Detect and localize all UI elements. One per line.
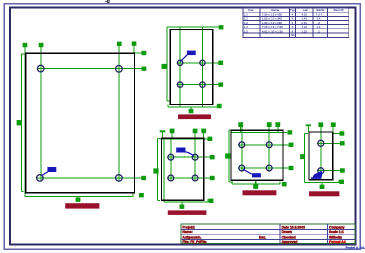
title block frame xyxy=(181,224,355,243)
hole row line bottom V3 xyxy=(167,177,210,179)
hole V3 top-right xyxy=(192,154,198,160)
top edge stub to handle V1 xyxy=(134,52,141,54)
svg-text:Format A4: Format A4 xyxy=(329,240,346,244)
handle top dim V2 xyxy=(219,25,224,29)
svg-text:.50.: .50. xyxy=(290,33,295,37)
handle top dim right V4 xyxy=(287,130,292,134)
label bar V5 xyxy=(309,191,339,196)
hole V2 top-right xyxy=(200,60,205,65)
title block column divider 1 xyxy=(279,224,281,243)
title block row line 1 xyxy=(181,229,355,231)
bottom dimension line V5 xyxy=(305,180,339,183)
hole column line right V3 xyxy=(194,139,196,181)
hole V1 bottom-right xyxy=(116,175,123,182)
hole row line top V3 xyxy=(167,156,210,158)
svg-text:Projekt:: Projekt: xyxy=(182,225,195,229)
svg-text:Approved: Approved xyxy=(282,240,298,244)
handle bottom centre V1 xyxy=(76,198,81,202)
handle top right V5 xyxy=(331,122,336,127)
handle top b V3 xyxy=(170,129,175,134)
handle top D V1 xyxy=(132,41,137,45)
table column Stk xyxy=(327,8,329,37)
hole V3 top-left xyxy=(168,154,174,160)
label bar V3 xyxy=(168,210,207,215)
handle bottom centre V3 xyxy=(180,205,185,209)
svg-text:Scale 1:1: Scale 1:1 xyxy=(329,230,344,234)
witness line right edge V1 xyxy=(133,45,135,53)
dim handle left V5 xyxy=(300,154,305,159)
title block column divider 2 xyxy=(326,224,328,243)
handle hole-row-bottom V5 xyxy=(340,168,345,172)
handle hole-row-top V4 xyxy=(289,143,294,147)
dim handle left V2 xyxy=(162,64,167,69)
witness stub c V4 xyxy=(277,127,279,132)
table row line 4 xyxy=(243,24,349,26)
table text xyxy=(244,8,344,37)
handle bottom dim right V2 xyxy=(217,104,222,108)
table column Lab xyxy=(312,8,314,37)
top dimension line V3 xyxy=(161,138,208,140)
svg-text:7.10: 7.10 xyxy=(302,25,308,29)
table row line 6 xyxy=(243,32,349,34)
handle bottom centre V4 xyxy=(253,184,258,189)
svg-text:1.10: 1.10 xyxy=(302,29,308,33)
handle hole-row-top V3 xyxy=(210,155,215,159)
hole V2 top-left xyxy=(177,60,182,65)
svg-text:1.41: 1.41 xyxy=(302,17,308,21)
svg-text:4.10: 4.10 xyxy=(302,13,308,17)
handle top-right dim V5 xyxy=(340,131,345,135)
stub bottom centre handle V2 xyxy=(190,107,192,110)
hole V1 top-right xyxy=(116,66,123,73)
svg-text:Wilhelm: Wilhelm xyxy=(329,236,342,240)
stub bottom centre handle V1 xyxy=(77,197,79,200)
table row line 1 xyxy=(243,11,349,13)
svg-text:Pos: Pos xyxy=(248,8,254,12)
table row line 3 xyxy=(243,20,349,22)
handle hole-row-bottom V4 xyxy=(289,166,294,170)
handle right hole-row-bottom V1 xyxy=(141,176,146,180)
dim handle left V1 xyxy=(17,120,22,125)
title block texts xyxy=(182,225,345,244)
svg-text:Name:: Name: xyxy=(182,230,192,234)
bottom dimension line V3 xyxy=(164,199,208,202)
hole V4 top-right xyxy=(266,142,272,148)
svg-text:Lab: Lab xyxy=(303,8,308,12)
hole V5 bottom xyxy=(318,168,324,174)
witness stub c V3 xyxy=(194,133,196,139)
hole column line V5 xyxy=(320,127,322,174)
table row line 2 xyxy=(243,16,349,18)
bar handle top V5 xyxy=(306,124,311,126)
stub bottom centre handle V5 xyxy=(321,182,323,185)
left dimension line V4 xyxy=(229,130,233,182)
hole row line bottom V4 xyxy=(238,167,288,169)
bottom dimension line V2 xyxy=(168,105,217,108)
dim witness line along left edge V1 xyxy=(24,47,26,197)
component mark V5 xyxy=(311,171,322,179)
handle top dim right V3 xyxy=(208,137,213,141)
witness stub mid V5 xyxy=(320,127,322,134)
hole row line top V2 xyxy=(177,62,219,64)
svg-text:1.3: 1.3 xyxy=(244,21,248,25)
clipped origin text 0 xyxy=(105,0,109,3)
hole column line right V4 xyxy=(268,127,270,172)
handle top d V3 xyxy=(201,129,206,134)
dim handle left V3 xyxy=(153,168,158,173)
board outline V1 xyxy=(26,53,135,193)
handle top c V3 xyxy=(193,129,198,134)
top dimension line V2 xyxy=(167,27,219,30)
hole V5 top xyxy=(318,140,324,146)
svg-text:1.1: 1.1 xyxy=(244,13,248,17)
stub bottom centre handle V4 xyxy=(255,181,257,186)
hole column line left V1 xyxy=(40,47,42,182)
witness stub a V4 xyxy=(240,127,242,132)
hole V3 bottom-left xyxy=(168,175,174,181)
handle top C V1 xyxy=(117,42,122,46)
top-right dim stub V5 xyxy=(333,133,340,135)
svg-text:1.2: 1.2 xyxy=(244,17,248,21)
witness stub a V3 xyxy=(162,132,164,139)
component mark V4 xyxy=(243,169,261,177)
handle top a V4 xyxy=(238,122,243,127)
table frame xyxy=(243,8,349,37)
hole V4 bottom-left xyxy=(239,165,245,171)
hole column line left V3 xyxy=(170,139,172,181)
svg-text:Stk/St: Stk/St xyxy=(316,8,324,12)
handle bottom centre V5 xyxy=(320,185,325,189)
bottom dimension line V4 xyxy=(232,181,280,184)
svg-text:Best-Nr: Best-Nr xyxy=(334,8,344,12)
top dimension line V4 xyxy=(231,131,287,133)
handle hole-row-top V2 xyxy=(218,61,223,65)
svg-text:Typ: Typ xyxy=(290,8,295,12)
svg-text:File: Fil_PdFlts: File: Fil_PdFlts xyxy=(182,240,206,244)
svg-text:7.5.7: 7.5.7 xyxy=(316,13,323,17)
svg-text:Protel A.Bd.h: Protel A.Bd.h xyxy=(346,246,365,250)
dim handle left V4 xyxy=(225,153,230,158)
label bar V4 xyxy=(243,190,277,195)
title block row line 3 xyxy=(181,238,355,240)
handle right bottom-dim V1 xyxy=(139,193,144,197)
label bar V2 xyxy=(178,114,211,119)
handle top c V4 xyxy=(275,122,280,127)
hole row line top V5 xyxy=(317,142,340,144)
svg-text:Company: Company xyxy=(329,225,345,229)
svg-text:Checked: Checked xyxy=(282,236,296,240)
dim witness line left V1 xyxy=(22,54,26,192)
svg-text:1.4: 1.4 xyxy=(317,25,321,29)
svg-text:4.61 x .10 x 1.50: 4.61 x .10 x 1.50 xyxy=(262,29,283,33)
hole V2 bottom-right xyxy=(200,82,205,87)
hole row line bottom V1 xyxy=(37,177,142,179)
bar handle top V3 xyxy=(160,130,166,132)
svg-text:7.50 x 1.3 x 7.50: 7.50 x 1.3 x 7.50 xyxy=(262,25,283,29)
hole V1 top-left xyxy=(37,65,44,72)
component mark V2 xyxy=(180,51,195,62)
svg-text:2.61: 2.61 xyxy=(302,21,308,25)
svg-text:Aufgezeich.: Aufgezeich. xyxy=(182,236,201,240)
svg-text:Bez.: Bez. xyxy=(259,236,266,240)
hole V3 bottom-right xyxy=(192,175,198,181)
board outline V3 xyxy=(161,138,203,200)
hole column line left V2 xyxy=(179,26,181,107)
svg-text:Drawn: Drawn xyxy=(282,230,292,234)
handle right top-edge V1 xyxy=(142,51,147,55)
left dimension line V5 xyxy=(305,134,309,183)
svg-text:7.50 x 1.5 x 450: 7.50 x 1.5 x 450 xyxy=(262,13,282,17)
handle top b V4 xyxy=(267,122,272,127)
board outline V2 xyxy=(170,30,213,105)
svg-text:Date 10.9.2003: Date 10.9.2003 xyxy=(282,225,305,229)
handle top A V1 xyxy=(23,43,28,47)
witness stub b V3 xyxy=(171,133,173,139)
handle bottom dim right V3 xyxy=(209,199,214,203)
hole row line top V1 xyxy=(37,68,142,70)
left dimension line V2 xyxy=(167,30,170,102)
handle hole-row-bottom V3 xyxy=(210,176,215,180)
hole column line right V2 xyxy=(202,26,204,107)
handle hole-row-bottom V2 xyxy=(218,82,223,86)
svg-text:1.4: 1.4 xyxy=(244,25,248,29)
label bar V1 xyxy=(65,203,99,208)
handle right hole-row-top V1 xyxy=(142,67,147,71)
hole column line right V1 xyxy=(118,46,120,182)
hole row line top V4 xyxy=(238,144,288,146)
handle hole-row-top V5 xyxy=(340,141,345,145)
svg-text:1.4: 1.4 xyxy=(317,17,321,21)
board outline V5 xyxy=(309,132,333,180)
table column Name xyxy=(289,8,291,37)
witness stub left V5 xyxy=(307,126,309,132)
table column Typ xyxy=(294,8,296,37)
hole V1 bottom-left xyxy=(37,175,44,182)
board outline V4 xyxy=(231,130,283,180)
stub bottom centre handle V3 xyxy=(181,202,183,205)
svg-text:1.5: 1.5 xyxy=(244,29,248,33)
hole V4 bottom-right xyxy=(266,165,272,171)
witness stub d V3 xyxy=(203,133,205,139)
handle top B V1 xyxy=(39,43,44,47)
title block row line 2 xyxy=(181,233,355,235)
component mark V1 xyxy=(42,167,57,176)
handle bottom dim right V5 xyxy=(339,180,344,184)
bottom dimension line V1 xyxy=(25,193,133,197)
witness stub right V5 xyxy=(332,127,334,134)
left dimension line V3 xyxy=(158,139,162,201)
table row line 5 xyxy=(243,28,349,30)
svg-text:1.80 x 1.0 x 295: 1.80 x 1.0 x 295 xyxy=(262,21,282,25)
hole row line bottom V5 xyxy=(317,170,340,172)
hole V4 top-left xyxy=(239,142,245,148)
witness stub b V4 xyxy=(268,127,270,132)
witness line inner-left V3 xyxy=(163,139,165,202)
hole V2 bottom-left xyxy=(177,82,182,87)
svg-text:Name: Name xyxy=(271,8,279,12)
table column Pos xyxy=(259,8,261,37)
handle bottom dim right V4 xyxy=(282,182,287,186)
handle bottom centre V2 xyxy=(189,109,194,113)
handle top mid V5 xyxy=(318,122,323,127)
hole column line left V4 xyxy=(241,127,243,172)
hole row line bottom V2 xyxy=(177,84,219,86)
svg-text:1.80 x 1.0 x 345: 1.80 x 1.0 x 345 xyxy=(262,17,282,21)
component mark V3 xyxy=(176,148,194,157)
